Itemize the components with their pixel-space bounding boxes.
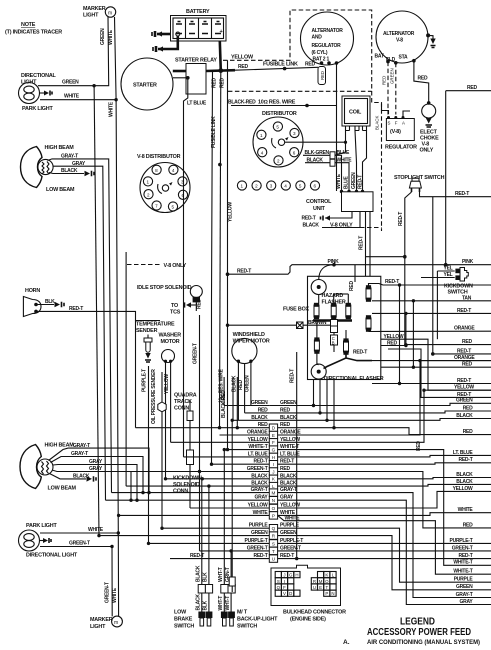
svg-text:TAN: TAN xyxy=(462,295,472,301)
svg-text:LOW: LOW xyxy=(174,610,187,616)
svg-text:(ENGINE SIDE): (ENGINE SIDE) xyxy=(290,617,326,623)
svg-text:2: 2 xyxy=(147,192,150,197)
wire row YELLOW [O] y=508.0 xyxy=(190,491,491,511)
temperature sender xyxy=(136,322,175,363)
low brake connector blocks xyxy=(195,585,212,612)
svg-text:PINK: PINK xyxy=(462,259,474,265)
svg-text:YEL: YEL xyxy=(444,272,453,278)
wire oil pressure sender to row Q xyxy=(151,369,162,528)
svg-text:BLACK: BLACK xyxy=(303,222,320,228)
svg-text:ALTERNATOR: ALTERNATOR xyxy=(312,28,344,34)
svg-text:+: + xyxy=(220,29,223,35)
regulator v8 xyxy=(374,104,417,151)
svg-text:N: N xyxy=(331,591,334,596)
wire pink to edge xyxy=(226,259,491,280)
marker light (bottom) xyxy=(90,616,122,630)
svg-text:PURPLE-T: PURPLE-T xyxy=(245,538,268,544)
node junction green xyxy=(92,84,95,87)
svg-text:CONTROL: CONTROL xyxy=(306,199,332,205)
svg-text:P: P xyxy=(325,591,328,596)
svg-text:U: U xyxy=(272,557,275,562)
svg-text:NOTE: NOTE xyxy=(21,22,36,28)
svg-text:RED: RED xyxy=(212,78,218,88)
svg-text:6: 6 xyxy=(314,184,317,189)
wire row RED-T [I] y=464.2 xyxy=(212,459,491,468)
svg-text:Q: Q xyxy=(272,526,276,531)
svg-text:1: 1 xyxy=(260,133,263,138)
svg-text:CONN.: CONN. xyxy=(173,489,190,495)
wire gray 2 bottom headlamp xyxy=(52,466,131,500)
svg-text:REGULATOR: REGULATOR xyxy=(312,43,342,49)
hazard flasher xyxy=(311,280,346,306)
svg-text:F: F xyxy=(283,585,286,590)
svg-text:STARTER: STARTER xyxy=(133,83,157,89)
wire yellow vertical xyxy=(221,60,234,449)
svg-text:QUADRA: QUADRA xyxy=(174,393,197,399)
directional flasher xyxy=(311,355,384,383)
svg-text:UNIT: UNIT xyxy=(313,206,326,212)
svg-text:RED: RED xyxy=(387,341,397,347)
directional light (top left) xyxy=(19,73,57,112)
kickdown solenoid conn xyxy=(173,400,202,508)
svg-text:ALTERNATOR: ALTERNATOR xyxy=(383,31,415,37)
wire row WHITE-T [G] y=449.6 xyxy=(228,444,491,565)
svg-text:E: E xyxy=(319,585,322,590)
wire red label vertical xyxy=(416,441,422,451)
wire row GREEN-T [T] y=550.9 xyxy=(200,545,491,554)
wire starter second terminal xyxy=(173,76,190,80)
wire wiper black xyxy=(232,361,239,420)
wire row RED-T [U] y=558.6 xyxy=(170,553,491,562)
svg-text:Q: Q xyxy=(277,585,281,590)
svg-text:WHITE: WHITE xyxy=(64,94,80,100)
svg-text:STA: STA xyxy=(399,55,409,61)
svg-text:V-8 ONLY: V-8 ONLY xyxy=(330,222,353,228)
svg-text:GREEN: GREEN xyxy=(456,398,473,404)
wire wiper red xyxy=(238,364,245,413)
svg-text:H: H xyxy=(295,573,298,578)
numbered terminals row xyxy=(237,181,319,190)
svg-text:IDLE STOP SOLENOID: IDLE STOP SOLENOID xyxy=(137,285,192,291)
marker light (top) xyxy=(83,6,116,19)
svg-text:F: F xyxy=(272,440,275,445)
svg-text:V-8 ONLY: V-8 ONLY xyxy=(164,263,187,269)
fuse box xyxy=(283,276,381,379)
svg-text:O: O xyxy=(272,506,276,511)
svg-text:RED-T: RED-T xyxy=(253,553,267,559)
svg-text:G: G xyxy=(272,448,276,453)
svg-text:GREEN-T: GREEN-T xyxy=(247,545,268,551)
svg-text:GRAY: GRAY xyxy=(460,599,474,605)
svg-text:4: 4 xyxy=(284,184,287,189)
starter xyxy=(121,58,173,110)
svg-text:GREEN-T: GREEN-T xyxy=(452,545,473,551)
svg-text:(6 CYL): (6 CYL) xyxy=(312,50,328,56)
svg-text:LT. BLUE: LT. BLUE xyxy=(453,450,473,456)
svg-text:RED-T: RED-T xyxy=(302,216,316,222)
wire row PURPLE-T [S] y=543.4 xyxy=(149,538,491,547)
park light (bottom left) xyxy=(19,523,78,559)
svg-text:GREEN: GREEN xyxy=(390,68,395,84)
wires bends into rows 1-4 from mid bundle xyxy=(224,377,251,429)
battery xyxy=(171,9,227,41)
svg-text:B: B xyxy=(332,341,335,346)
wire wiper green xyxy=(244,361,251,405)
wire row PURPLE [Q] y=528.2 xyxy=(162,523,491,583)
svg-text:V: V xyxy=(283,591,286,596)
svg-text:I: I xyxy=(284,579,285,584)
svg-text:STARTER RELAY: STARTER RELAY xyxy=(175,58,217,64)
svg-text:RED-T: RED-T xyxy=(353,350,367,356)
svg-text:3: 3 xyxy=(181,180,184,185)
svg-text:GRAY-T: GRAY-T xyxy=(61,154,78,160)
svg-text:SWITCH: SWITCH xyxy=(237,624,257,630)
dashed yellow v8 feed xyxy=(223,10,382,231)
svg-text:6: 6 xyxy=(293,150,296,155)
wire row BLACK [L] y=486.1 xyxy=(126,481,491,490)
wire row GRAY [N] y=500.2 xyxy=(106,495,491,605)
fuses row xyxy=(313,265,355,321)
svg-text:GRAY-T: GRAY-T xyxy=(71,451,88,457)
svg-text:A: A xyxy=(402,121,405,126)
svg-text:GREEN-T: GREEN-T xyxy=(105,582,111,603)
svg-text:D: D xyxy=(289,591,292,596)
wire row GREEN y=405.5 xyxy=(251,400,491,406)
wire fusible link red xyxy=(235,61,318,70)
svg-text:BACK-UP-LIGHT: BACK-UP-LIGHT xyxy=(237,617,278,623)
distributor xyxy=(253,111,303,167)
svg-text:RED-T: RED-T xyxy=(457,378,471,384)
bulkhead grid left xyxy=(275,572,300,597)
svg-text:RED: RED xyxy=(258,407,268,413)
fusible link pigtail xyxy=(318,61,338,84)
ground on alternator v8 xyxy=(426,33,436,47)
svg-text:R: R xyxy=(313,579,316,584)
wire row BLACK [K] y=478.8 xyxy=(166,473,491,482)
svg-text:OIL PRESSURE SENDER: OIL PRESSURE SENDER xyxy=(151,369,157,424)
svg-text:LT. BLUE: LT. BLUE xyxy=(248,451,268,457)
control unit xyxy=(306,190,373,212)
svg-text:LT BLUE: LT BLUE xyxy=(187,101,207,107)
svg-text:1: 1 xyxy=(241,184,244,189)
svg-text:PARK LIGHT: PARK LIGHT xyxy=(26,523,57,529)
wire white from marker light down xyxy=(40,17,119,616)
svg-text:BATTERY: BATTERY xyxy=(186,9,210,15)
svg-text:BLACK: BLACK xyxy=(195,565,201,582)
svg-text:PINK: PINK xyxy=(328,259,340,265)
svg-text:I: I xyxy=(273,462,274,467)
wire gray-t from top headlamp xyxy=(48,154,112,493)
wire gray from top headlamp xyxy=(53,161,106,500)
svg-text:M: M xyxy=(319,579,323,584)
svg-text:GRAY-T: GRAY-T xyxy=(251,487,268,493)
svg-text:WASHER: WASHER xyxy=(159,333,182,339)
wire row RED [D] y=427.7 xyxy=(136,422,491,434)
ground wire battery 2 xyxy=(153,36,178,52)
dashed wires bat fld to regulator xyxy=(382,60,398,115)
brown wire from yellow vertical xyxy=(226,324,288,327)
svg-text:RED: RED xyxy=(416,441,422,451)
wire row BLACK y=420.3 xyxy=(238,415,491,421)
svg-text:TRACK: TRACK xyxy=(174,399,192,405)
bulkhead grid right xyxy=(311,572,336,597)
svg-text:HORN: HORN xyxy=(25,288,40,294)
svg-text:PURPLE-T: PURPLE-T xyxy=(142,369,148,392)
wire lt blue from relay down xyxy=(184,78,207,457)
svg-text:BRAKE: BRAKE xyxy=(174,617,193,623)
svg-text:m: m xyxy=(108,11,112,17)
svg-text:PURPLE: PURPLE xyxy=(454,577,474,583)
kickdown yel wires verticals xyxy=(421,271,437,339)
svg-text:H: H xyxy=(272,455,275,460)
svg-text:YELLOW: YELLOW xyxy=(228,202,234,222)
svg-text:GREEN: GREEN xyxy=(456,584,473,590)
svg-text:WHITE: WHITE xyxy=(336,173,342,189)
svg-text:SWITCH: SWITCH xyxy=(174,624,194,630)
svg-text:AIR CONDITIONING (MANUAL SYSTE: AIR CONDITIONING (MANUAL SYSTEM) xyxy=(367,639,480,646)
svg-text:L: L xyxy=(272,484,275,489)
svg-text:BULKHEAD CONNECTOR: BULKHEAD CONNECTOR xyxy=(283,610,346,616)
svg-text:4: 4 xyxy=(172,168,175,173)
svg-text:WHITE: WHITE xyxy=(108,29,114,45)
svg-text:RED-T: RED-T xyxy=(359,236,365,250)
node junction white xyxy=(114,98,117,101)
svg-text:E: E xyxy=(272,433,275,438)
svg-text:HIGH BEAM: HIGH BEAM xyxy=(45,145,75,151)
svg-text:2: 2 xyxy=(277,159,280,164)
wire purple-t to row S xyxy=(142,366,149,543)
svg-text:BLK: BLK xyxy=(203,600,209,610)
svg-text:MOTOR: MOTOR xyxy=(161,339,180,345)
svg-text:GREEN: GREEN xyxy=(351,172,357,189)
svg-text:RED: RED xyxy=(238,380,244,390)
wires control unit to fuse box xyxy=(359,212,371,277)
svg-text:RED: RED xyxy=(197,299,203,309)
wire black v8 only dashed xyxy=(303,212,382,229)
svg-text:GRAY: GRAY xyxy=(72,161,86,167)
low brake switch wires xyxy=(195,479,209,585)
svg-text:BLACK: BLACK xyxy=(195,594,201,611)
svg-text:RED-T: RED-T xyxy=(357,175,363,189)
svg-text:BAT: BAT xyxy=(375,54,384,60)
wire row GREEN [R] y=535.6 xyxy=(99,530,491,590)
svg-text:GREEN: GREEN xyxy=(244,375,250,392)
svg-text:WHITE: WHITE xyxy=(253,510,269,516)
svg-text:RED: RED xyxy=(258,422,268,428)
svg-text:BLACK: BLACK xyxy=(251,415,268,421)
wire gray-t 1 bottom headlamp xyxy=(49,443,150,493)
svg-text:DIRECTIONAL LIGHT: DIRECTIONAL LIGHT xyxy=(26,553,78,559)
svg-text:FUSIBLE LINK: FUSIBLE LINK xyxy=(263,62,298,68)
svg-text:M/ T: M/ T xyxy=(237,610,248,616)
wires fuse box bottom to rows xyxy=(312,380,336,430)
svg-text:U: U xyxy=(313,585,316,590)
wire red-t extra label U row xyxy=(190,553,204,559)
horn xyxy=(23,288,41,317)
windshield wiper motor xyxy=(232,332,270,364)
wire red-t fusebox left xyxy=(290,352,297,559)
wire fusible link vertical xyxy=(211,71,218,464)
svg-text:2: 2 xyxy=(255,184,258,189)
wire row YELLOW [F] y=442.3 xyxy=(171,390,491,446)
dashed v8 feed branch left xyxy=(228,90,372,92)
svg-text:BLACK: BLACK xyxy=(374,116,379,130)
wire stoplight left leg red-t down xyxy=(366,192,412,345)
svg-text:M: M xyxy=(272,491,276,496)
svg-text:WHITE: WHITE xyxy=(88,527,104,533)
wire red-t horn xyxy=(36,306,160,428)
svg-text:5: 5 xyxy=(172,205,175,210)
svg-text:BLACK: BLACK xyxy=(456,479,473,485)
svg-text:SENDER: SENDER xyxy=(136,328,158,334)
svg-text:RED: RED xyxy=(463,429,473,435)
wire sta red to elect choke xyxy=(412,59,430,105)
wire stoplight right leg red-t to edge xyxy=(420,191,491,354)
headlamp high/low beam (top) xyxy=(21,145,76,193)
svg-text:REGULATOR: REGULATOR xyxy=(385,145,417,151)
svg-text:S: S xyxy=(272,541,275,546)
svg-text:O: O xyxy=(325,579,329,584)
svg-text:ACCESSORY POWER FEED: ACCESSORY POWER FEED xyxy=(367,626,471,638)
svg-text:GREEN: GREEN xyxy=(62,80,79,86)
svg-text:S: S xyxy=(277,579,280,584)
kickdown switch xyxy=(437,266,473,296)
wire green branch vA down to green row xyxy=(94,86,99,536)
svg-text:WHT-T: WHT-T xyxy=(218,596,224,611)
svg-text:BLACK: BLACK xyxy=(251,481,268,487)
wire into bulkhead left xyxy=(229,419,235,592)
wire washer black to row K xyxy=(165,361,167,479)
fuse right column top xyxy=(366,279,491,302)
svg-text:7: 7 xyxy=(155,204,158,209)
svg-text:RED-T: RED-T xyxy=(237,269,251,275)
svg-text:PURPLE: PURPLE xyxy=(249,523,269,529)
svg-text:WHT-T: WHT-T xyxy=(218,567,224,582)
svg-text:RED-T: RED-T xyxy=(458,553,472,559)
right edge wires top group xyxy=(369,295,491,398)
svg-text:BLK: BLK xyxy=(203,572,209,582)
stoplight switch xyxy=(394,175,445,192)
svg-text:RED-T: RED-T xyxy=(458,457,472,463)
note text xyxy=(5,22,62,36)
wire distributor center to coil xyxy=(285,131,347,144)
svg-text:PURPLE-T: PURPLE-T xyxy=(450,538,473,544)
idle stop solenoid xyxy=(137,285,203,316)
svg-text:A.: A. xyxy=(343,639,350,646)
right edge wire labels xyxy=(450,398,474,605)
svg-text:(T) INDICATES TRACER: (T) INDICATES TRACER xyxy=(5,30,62,36)
wire row ORANGE [E] y=435.0 xyxy=(220,361,491,439)
svg-text:YELLOW: YELLOW xyxy=(384,334,404,340)
svg-text:RED: RED xyxy=(219,78,225,88)
svg-text:T: T xyxy=(272,549,275,554)
svg-text:YEL: YEL xyxy=(444,266,453,272)
m/t switch plugs xyxy=(221,610,278,630)
wire red-t ground from control unit xyxy=(302,212,353,222)
svg-text:RED-T: RED-T xyxy=(457,308,471,314)
svg-text:GRAY: GRAY xyxy=(89,459,103,465)
svg-text:BLACK-RED: BLACK-RED xyxy=(228,100,256,106)
svg-text:GRAY: GRAY xyxy=(255,495,269,501)
headlamp high/low beam (bottom) xyxy=(20,443,77,492)
svg-text:TO: TO xyxy=(171,303,178,309)
wire washer yellow to row F xyxy=(164,361,171,442)
svg-text:RED: RED xyxy=(382,76,387,85)
svg-text:GRAY-T: GRAY-T xyxy=(456,592,473,598)
svg-text:5: 5 xyxy=(299,184,302,189)
svg-text:RED: RED xyxy=(463,405,473,411)
starter relay xyxy=(175,58,217,95)
svg-text:AND: AND xyxy=(312,35,323,41)
svg-text:5: 5 xyxy=(276,125,279,130)
svg-text:RED-T: RED-T xyxy=(455,191,469,197)
m/t back-up light switch wires xyxy=(218,450,231,585)
svg-text:GRAY: GRAY xyxy=(89,466,103,472)
brown connector xyxy=(288,320,338,333)
wire red v8 to right edge xyxy=(446,85,491,265)
svg-text:K: K xyxy=(325,573,328,578)
quadra track conn xyxy=(158,393,197,412)
svg-text:DIRECTIONAL: DIRECTIONAL xyxy=(21,73,57,79)
svg-text:RED: RED xyxy=(462,362,472,368)
svg-text:GREEN-T: GREEN-T xyxy=(247,466,268,472)
svg-text:RED-T: RED-T xyxy=(385,279,399,285)
svg-text:GREEN-T: GREEN-T xyxy=(69,541,90,547)
svg-text:GREEN: GREEN xyxy=(251,400,268,406)
svg-text:LOW BEAM: LOW BEAM xyxy=(48,486,77,492)
svg-text:4: 4 xyxy=(261,150,264,155)
wire green-t solenoid to row T xyxy=(193,315,200,551)
svg-text:GREEN: GREEN xyxy=(100,28,106,45)
legend xyxy=(343,616,480,647)
wire fifth bundle line to row L xyxy=(125,252,127,486)
svg-text:LOW BEAM: LOW BEAM xyxy=(46,187,75,193)
wire row RED y=412.9 xyxy=(245,407,491,413)
svg-text:PARK LIGHT: PARK LIGHT xyxy=(22,106,53,112)
wire thick starter to junction xyxy=(173,68,235,73)
alternator and regulator 6cyl xyxy=(301,12,354,65)
svg-text:BLACK: BLACK xyxy=(456,413,473,419)
svg-text:SOLENOID: SOLENOID xyxy=(173,482,200,488)
coil xyxy=(342,96,370,131)
ground wire battery 1 xyxy=(152,31,171,37)
washer motor xyxy=(159,333,182,363)
svg-text:RED-T: RED-T xyxy=(253,459,267,465)
svg-text:10Ω RES. WIRE: 10Ω RES. WIRE xyxy=(258,100,296,106)
svg-text:ORANGE: ORANGE xyxy=(247,430,268,436)
svg-text:8: 8 xyxy=(155,168,158,173)
svg-text:WHITE-T: WHITE-T xyxy=(453,560,472,566)
bulkhead connector engine side xyxy=(271,565,341,605)
fuse lower mid xyxy=(343,330,367,356)
wire row WHITE [P] y=515.4 xyxy=(119,510,491,519)
bulkhead connector text xyxy=(283,610,346,623)
svg-text:GREEN: GREEN xyxy=(251,530,268,536)
wire green-t park light xyxy=(40,541,118,617)
svg-text:WHITE: WHITE xyxy=(112,587,118,603)
svg-text:DIRECTIONAL FLASHER: DIRECTIONAL FLASHER xyxy=(324,376,384,382)
wire red vertical xyxy=(218,71,225,428)
svg-text:RED: RED xyxy=(320,71,325,80)
svg-text:WHITE-T: WHITE-T xyxy=(248,444,267,450)
svg-text:ONLY: ONLY xyxy=(420,148,434,154)
svg-text:T: T xyxy=(325,585,328,590)
m/t connector blocks xyxy=(218,585,235,612)
v8 distributor xyxy=(137,154,190,213)
wire black grounded from top headlamp xyxy=(49,168,94,176)
svg-text:V-8: V-8 xyxy=(396,38,403,44)
wire white park light xyxy=(40,527,120,535)
